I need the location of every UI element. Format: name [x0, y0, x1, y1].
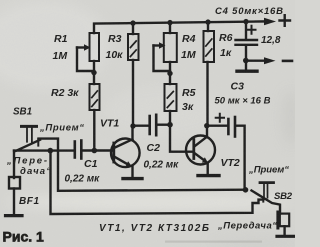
- wire: R1 bottom lead: [93, 61, 95, 84]
- microphone BF1: [9, 177, 20, 189]
- C3 plus mark: [216, 114, 224, 122]
- switch SB2 (push button): [260, 181, 274, 184]
- resistor R2: [90, 84, 100, 110]
- node dot: C4 top: [243, 19, 248, 24]
- node dot: R3 top: [130, 20, 135, 25]
- node dot: R6 top: [205, 19, 210, 24]
- VT2 emitter with arrow: [195, 154, 204, 160]
- wire: +12V top rail: [94, 21, 266, 33]
- resistor R6: [207, 22, 209, 31]
- wire: SB1 left contact down to BF1: [13, 151, 15, 178]
- ground: BF1 bar: [6, 214, 23, 217]
- ground: common bar under C4: [245, 61, 247, 70]
- node dot: mic line junction: [48, 148, 54, 154]
- faint page-bottom smudge: [165, 241, 262, 243]
- SB2 lower contact nub: [262, 197, 264, 201]
- R4 wiper arrow: [154, 44, 160, 46]
- node: + supply terminal mark: [280, 15, 291, 26]
- ground: speaker bar: [277, 235, 294, 238]
- node dot: SB2 upper contact node: [243, 187, 249, 193]
- node dot: VT1 collector junction: [130, 123, 135, 128]
- wire: C4 bottom to minus node: [245, 46, 247, 61]
- wire: top rail arrowhead to + terminal: [264, 18, 276, 25]
- wire: R3 bottom lead to VT1 collector: [132, 60, 134, 126]
- resistor R5: [165, 84, 177, 111]
- wire: minus branch with arrowhead: [246, 60, 265, 62]
- node dot: R4 top: [167, 20, 172, 25]
- wire: R4 bottom lead: [169, 62, 171, 84]
- wire: R2 bottom lead to VT1 base node: [93, 110, 95, 151]
- node dot: R1 wiper junction: [91, 70, 96, 75]
- wire: C1 to VT1 base: [83, 149, 113, 151]
- VT1 emitter with arrow: [115, 157, 128, 164]
- resistor R3: [132, 23, 134, 34]
- node dot: minus node: [243, 58, 249, 64]
- VT1 collector: [115, 126, 133, 148]
- transistor VT2: [186, 136, 215, 165]
- switch SB1 (push button): [22, 125, 37, 128]
- resistor R1 (trimmer body): [90, 33, 100, 61]
- ground: VT1 emitter common bar: [123, 177, 142, 180]
- wire: lower rail to SB2 lower contact: [51, 151, 264, 214]
- wire: VT2 collector to C3: [207, 124, 227, 126]
- wire: C3 to SB2 upper node: [236, 126, 244, 190]
- speaker BA (telephone capsule): [276, 211, 279, 230]
- transistor VT1: [111, 139, 140, 168]
- ground: VT2 emitter common bar: [198, 174, 219, 177]
- SB1 moving contact: [16, 140, 40, 151]
- wire: R5 bottom lead: [169, 111, 171, 125]
- wire: C2 to R5/VT2 base node: [158, 123, 171, 125]
- C4 plus mark: [248, 26, 256, 34]
- capacitor C1: [74, 142, 77, 158]
- SB2 moving contact to speaker: [252, 191, 281, 214]
- node dot: C1/R2/VT1 base junction: [92, 148, 98, 154]
- wire: SB1 left contact to C1 (signal wire): [14, 149, 74, 151]
- node: minus terminal mark: [283, 60, 292, 63]
- VT2 collector: [195, 126, 207, 146]
- wire: bottom return rail (SB1 to SB2): [39, 139, 246, 191]
- capacitor C2: [148, 116, 151, 134]
- R1 wiper arrow: [77, 46, 85, 48]
- wire: C2/R5 node down and to VT2 base: [170, 125, 193, 152]
- SB1 fixed contact nub: [37, 139, 39, 146]
- resistor R4 (trimmer body): [169, 23, 171, 33]
- node dot: R4 wiper junction: [167, 71, 172, 76]
- wire: R4 wiper to bottom lead: [154, 46, 171, 72]
- wire: BF1 to ground: [13, 189, 15, 215]
- wire: VT1 collector to C2: [133, 124, 148, 126]
- node dot: C2/R5/VT2 base junction: [167, 122, 173, 128]
- wire: R6 bottom lead to VT2 collector: [206, 62, 208, 126]
- wire: speaker to ground: [283, 226, 285, 235]
- wire: R1 wiper to bottom lead: [77, 48, 94, 72]
- capacitor C4 (electrolytic, across supply): [245, 22, 247, 39]
- node dot: VT2 collector junction: [204, 123, 209, 128]
